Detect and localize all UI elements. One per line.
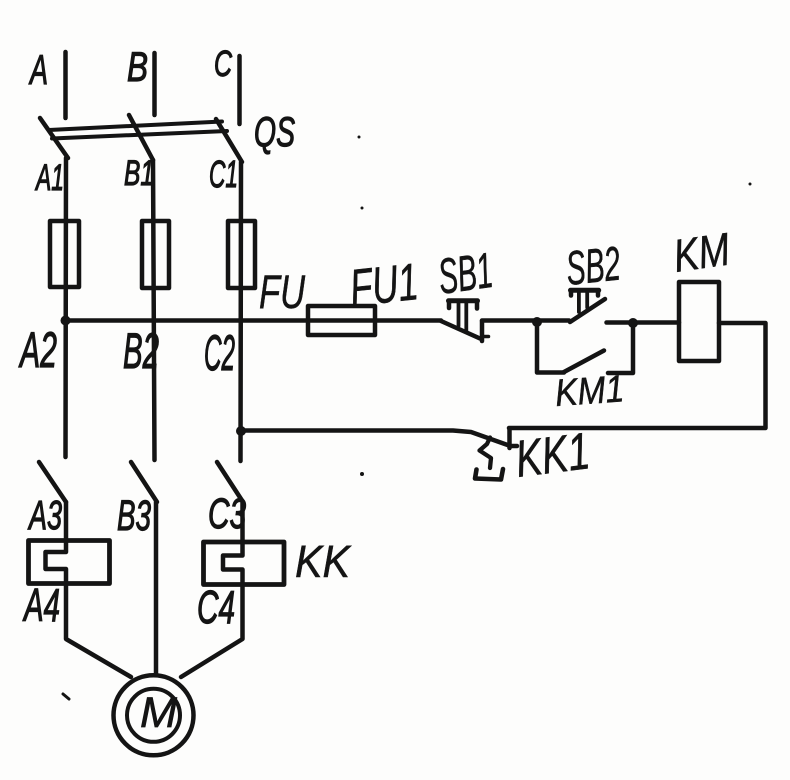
svg-text:SB2: SB2 xyxy=(564,238,623,296)
svg-text:C2: C2 xyxy=(204,325,235,381)
svg-text:C: C xyxy=(214,43,233,84)
svg-text:KM1: KM1 xyxy=(554,368,626,415)
svg-text:B2: B2 xyxy=(123,323,159,379)
svg-text:QS: QS xyxy=(254,108,295,155)
svg-text:C4: C4 xyxy=(197,581,235,633)
svg-text:KK: KK xyxy=(295,536,352,587)
svg-text:C3: C3 xyxy=(208,490,246,538)
svg-text:A2: A2 xyxy=(18,322,57,378)
svg-text:B1: B1 xyxy=(124,154,154,193)
svg-text:FU1: FU1 xyxy=(347,253,421,318)
svg-text:KM: KM xyxy=(670,223,733,282)
svg-text:A4: A4 xyxy=(22,579,60,631)
svg-text:A1: A1 xyxy=(35,157,64,198)
svg-text:A: A xyxy=(28,46,48,93)
svg-text:A3: A3 xyxy=(27,492,62,538)
svg-text:C1: C1 xyxy=(209,154,238,196)
svg-text:FU: FU xyxy=(259,265,306,318)
svg-text:M: M xyxy=(140,689,177,737)
svg-text:SB1: SB1 xyxy=(435,242,496,305)
svg-text:KK1: KK1 xyxy=(512,422,593,489)
svg-text:B: B xyxy=(127,43,148,90)
svg-text:B3: B3 xyxy=(117,492,151,540)
